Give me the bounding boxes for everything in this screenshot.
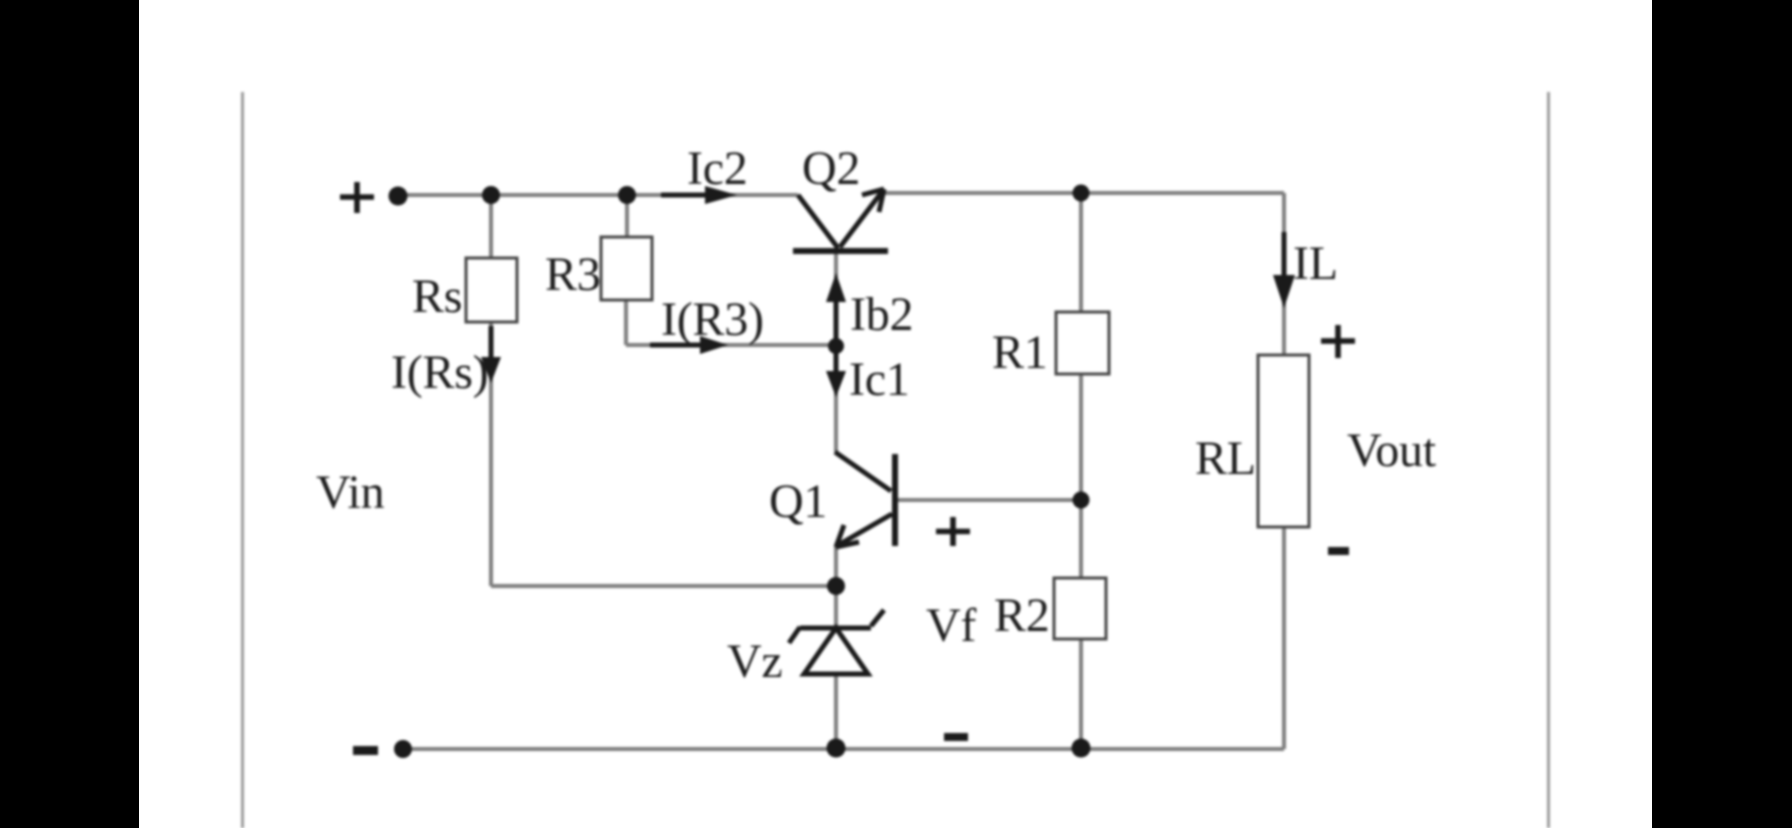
svg-text:Q2: Q2 <box>802 142 860 195</box>
svg-text:Ic1: Ic1 <box>849 353 910 406</box>
svg-text:Vz: Vz <box>727 635 782 688</box>
svg-text:Vin: Vin <box>316 466 385 519</box>
svg-text:I(R3): I(R3) <box>661 293 764 346</box>
svg-text:Vout: Vout <box>1347 424 1437 477</box>
svg-text:RL: RL <box>1195 432 1256 485</box>
svg-text:Q1: Q1 <box>769 475 827 528</box>
svg-text:Ib2: Ib2 <box>850 288 913 341</box>
svg-text:R1: R1 <box>992 326 1048 379</box>
svg-text:Ic2: Ic2 <box>687 142 748 195</box>
svg-text:I(Rs): I(Rs) <box>391 346 488 399</box>
svg-text:Vf: Vf <box>926 599 976 652</box>
svg-text:R2: R2 <box>994 589 1050 642</box>
svg-text:R3: R3 <box>545 248 601 301</box>
svg-text:IL: IL <box>1293 237 1338 290</box>
svg-text:Rs: Rs <box>412 270 462 323</box>
